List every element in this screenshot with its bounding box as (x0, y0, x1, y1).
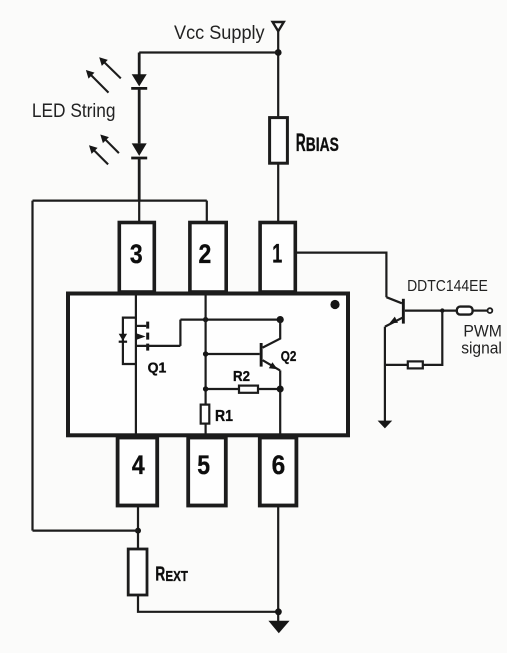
svg-text:2: 2 (199, 239, 212, 269)
wire LED string bottom to node (138, 158, 141, 201)
svg-text:DDTC144EE: DDTC144EE (407, 278, 488, 295)
wire base row (405, 310, 457, 312)
node Vcc junction (275, 49, 282, 56)
node dot (203, 351, 208, 356)
resistor REXT (128, 549, 147, 595)
resistor R2 (239, 386, 258, 393)
wire horizontal node row (33, 200, 207, 202)
wire internal top horizontal (180, 319, 280, 321)
wire pin3-pin4 through line (135, 294, 137, 438)
wire stub into pin 2 (206, 201, 208, 223)
svg-text:R1: R1 (215, 408, 233, 425)
wire R2 row (206, 388, 281, 390)
svg-text:Vcc Supply: Vcc Supply (174, 23, 265, 44)
node dot ground row (275, 608, 282, 615)
node dot (277, 386, 284, 393)
PWM terminal circle (488, 308, 493, 313)
channel segments (146, 322, 149, 329)
svg-text:R: R (296, 129, 306, 157)
pin 5 (188, 438, 226, 506)
resistor (PWM series) (457, 307, 473, 315)
IC body U1 (68, 294, 348, 436)
LED D2 light arrows (89, 135, 119, 165)
svg-text:5: 5 (197, 450, 210, 480)
wire base feed (206, 353, 260, 355)
collector diagonal (386, 297, 402, 303)
svg-text:PWM: PWM (463, 322, 502, 340)
svg-text:BIAS: BIAS (306, 135, 339, 156)
wire pin1 to transistor (295, 253, 386, 298)
LED D1 (132, 74, 147, 86)
svg-text:Q2: Q2 (281, 348, 297, 365)
emitter down wire (384, 327, 386, 421)
wire Q1 riser (179, 320, 181, 346)
node tee (440, 308, 444, 312)
wire pin6 down (277, 506, 279, 623)
node dot pin1 line (277, 316, 284, 323)
pin 6 (260, 438, 297, 506)
wire to PWM terminal (473, 310, 488, 312)
gate line (136, 345, 181, 347)
wire left loop vertical (31, 201, 33, 531)
emitter (263, 360, 280, 370)
svg-text:EXT: EXT (165, 569, 188, 585)
LED D2 (132, 143, 147, 156)
transistor Q1 (MOSFET) (119, 318, 181, 364)
wire loop bottom (33, 529, 139, 531)
drain stub (136, 325, 146, 327)
transistor DDTC144EE (385, 297, 405, 421)
svg-text:4: 4 (132, 450, 145, 480)
wire base-emitter branch (385, 311, 442, 365)
pin 4 (118, 438, 158, 506)
pin1 marker dot (330, 300, 339, 309)
resistor (base-emitter) (408, 361, 423, 368)
transistor Q2 (NPN) (260, 320, 281, 437)
node dot below pin4 (135, 528, 141, 534)
svg-text:LED String: LED String (32, 101, 116, 122)
wire stub into pin 3 (138, 201, 140, 223)
node dot small (203, 317, 208, 322)
wire pin4 down (137, 506, 139, 550)
node dot (203, 386, 208, 391)
ground (right) (378, 421, 393, 429)
collector (263, 320, 281, 348)
base bar (402, 299, 405, 324)
emitter diagonal (385, 317, 403, 326)
pin 3 (119, 223, 154, 293)
svg-text:R2: R2 (233, 368, 250, 385)
pin 2 (190, 223, 226, 293)
wire Vcc horizontal to LED string (139, 51, 278, 53)
wire pin2-pin5 through line (205, 294, 207, 438)
resistor RBIAS (270, 118, 288, 164)
svg-text:R: R (155, 563, 165, 586)
svg-text:1: 1 (272, 239, 282, 269)
svg-text:signal: signal (461, 339, 502, 357)
wire LED string top (138, 53, 141, 76)
svg-text:Q1: Q1 (148, 360, 167, 377)
LED D1 light arrows (86, 57, 121, 92)
svg-text:6: 6 (272, 450, 286, 480)
svg-text:3: 3 (130, 239, 143, 269)
pin 1 (260, 223, 295, 293)
wire RBIAS to pin 1 (277, 163, 279, 222)
ground (center) (268, 621, 289, 634)
body diode branch (123, 318, 136, 364)
resistor R1 (201, 405, 210, 424)
wire REXT to ground row (138, 595, 278, 612)
Vcc supply symbol (open triangle) (273, 22, 284, 31)
wire Vcc stem (277, 31, 279, 117)
body arrow (136, 333, 145, 340)
wire between LEDs (138, 88, 141, 143)
